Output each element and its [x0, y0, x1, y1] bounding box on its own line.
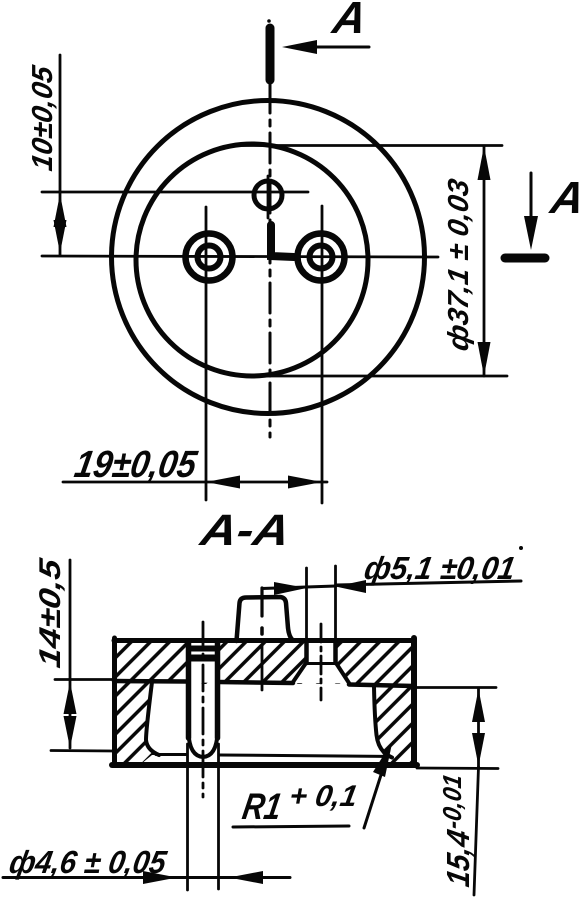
dimension ф37,1 extension lines — [242, 144, 502, 147]
svg-text:ф4,6 ± 0,05: ф4,6 ± 0,05 — [7, 844, 170, 880]
body bottom edge — [112, 762, 417, 768]
hatched left wall — [117, 682, 159, 764]
ф4,6 extension lines down — [186, 744, 189, 890]
contact sleeve bars in hole — [190, 646, 216, 652]
boss outline — [237, 597, 294, 641]
svg-text:15,4: 15,4 — [440, 827, 476, 889]
svg-text:+ 0,1: + 0,1 — [287, 780, 360, 813]
section arrow right (points down) — [530, 173, 533, 242]
svg-text:ф5,1 ±0,01: ф5,1 ±0,01 — [362, 550, 518, 586]
left contact hole rings — [186, 234, 233, 281]
funnel hole walls — [304, 641, 309, 663]
ф4,6 hole centerline (dash-dot) — [202, 622, 205, 797]
svg-text:10±0,05: 10±0,05 — [27, 63, 59, 173]
vertical center line (dash-dot) — [269, 83, 272, 437]
inner circle (ф37,1 rim) — [136, 144, 368, 376]
ф4,6 hole U bottom — [189, 733, 218, 757]
svg-text:19±0,05: 19±0,05 — [71, 443, 200, 486]
dot above cut bar — [267, 19, 271, 23]
dimension ф37,1 line with arrows — [483, 146, 486, 376]
section cut bar right — [505, 254, 545, 263]
horizontal extension line through small hole — [42, 191, 308, 194]
dimension 15,4 line with arrows — [477, 688, 480, 767]
body left edge — [112, 638, 117, 765]
svg-text:R1: R1 — [240, 785, 285, 827]
funnel centerline — [320, 624, 323, 700]
hatched right wall — [374, 687, 411, 764]
right wall inner edge — [374, 687, 392, 758]
boss centerline dashes — [260, 588, 263, 616]
left contact hole vertical line — [205, 207, 208, 500]
ф5,1 extension lines — [305, 568, 308, 641]
dimension ф4,6 line with arrows — [3, 876, 290, 879]
R1 leader line with arrow — [364, 750, 389, 828]
svg-text:A: A — [546, 172, 581, 223]
center L mark — [271, 225, 294, 257]
section arrow top (points left) — [290, 46, 369, 49]
dimension 10±0,05 line — [59, 55, 62, 255]
small top hole — [254, 181, 282, 209]
ф4,6 hole walls — [186, 641, 192, 738]
dimension 15,4 extension lines — [417, 686, 496, 689]
outer circle of part — [112, 101, 425, 414]
hatched flange band — [117, 641, 411, 684]
horizontal center line of view — [42, 256, 438, 257]
svg-text:14±0,5: 14±0,5 — [34, 555, 67, 670]
svg-text:A: A — [328, 0, 370, 43]
cavity floor line — [156, 753, 186, 756]
small hole vertical centerline — [267, 176, 270, 218]
svg-text:-0,01: -0,01 — [437, 772, 467, 831]
left wall inner edge — [146, 682, 159, 755]
dimension 14±0,5 — [69, 560, 72, 748]
section cut bar top — [266, 28, 275, 80]
R1 underline — [233, 826, 349, 827]
funnel flare lines — [293, 663, 306, 682]
right contact hole vertical line — [321, 206, 324, 503]
ф5,1 dimension line with arrows — [262, 586, 336, 589]
body right edge — [411, 638, 417, 765]
svg-text:A-A: A-A — [196, 506, 294, 555]
speck near ф5,1 text — [519, 546, 523, 550]
funnel cross line — [306, 662, 336, 665]
body top edge — [114, 638, 414, 643]
svg-text:ф37,1 ± 0,03: ф37,1 ± 0,03 — [443, 177, 475, 354]
dimension 19±0,05 line with arrows — [63, 481, 327, 484]
flange bottom line segments — [114, 679, 187, 684]
right contact hole rings — [298, 234, 345, 281]
